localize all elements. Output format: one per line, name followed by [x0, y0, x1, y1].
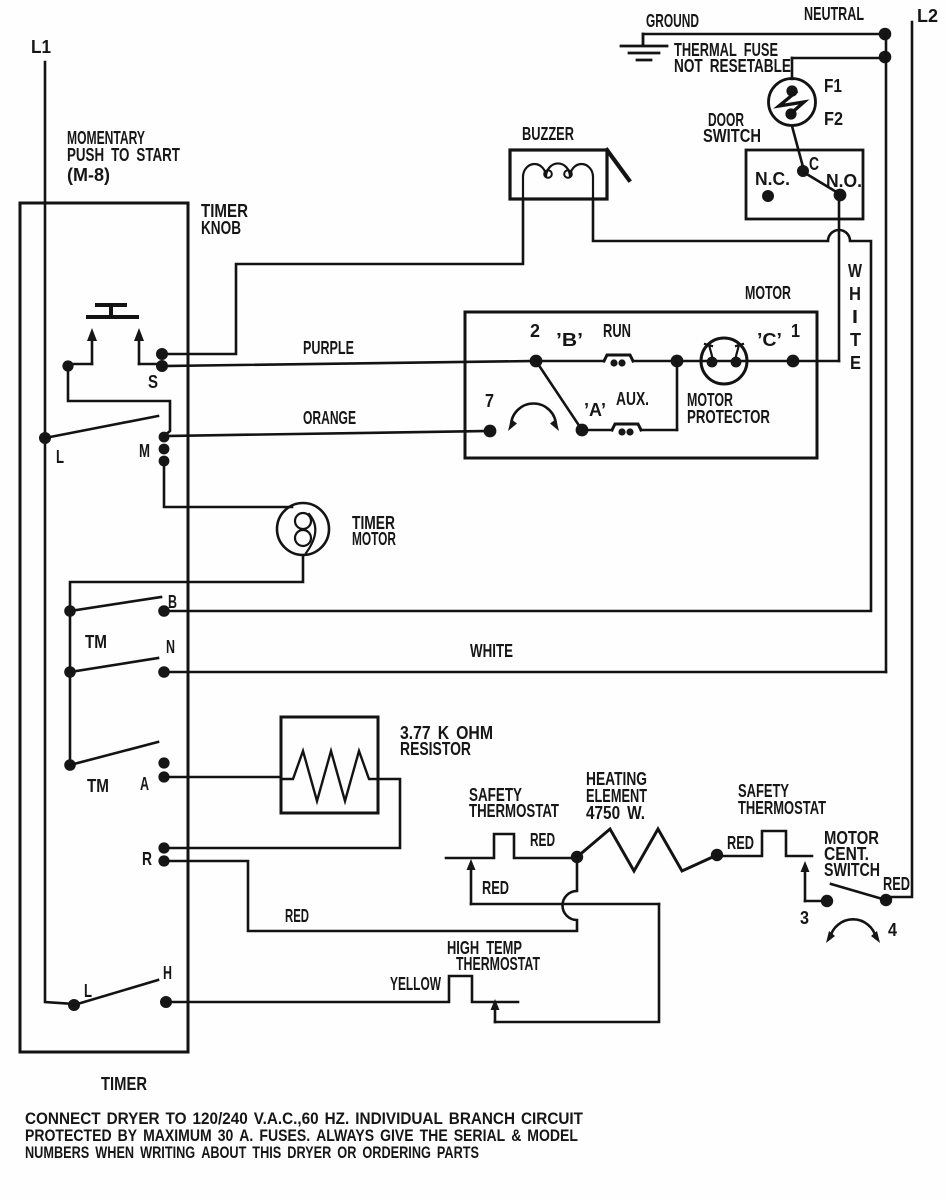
motor protector right contact — [731, 357, 742, 368]
svg-text:THERMOSTAT: THERMOSTAT — [738, 798, 826, 818]
buzzer striker arm — [607, 150, 629, 180]
node terminal 3 dot — [821, 895, 833, 907]
door switch box — [746, 150, 863, 219]
svg-text:PURPLE: PURPLE — [303, 338, 354, 358]
timer blade TM to A — [70, 742, 158, 765]
svg-text:L2: L2 — [917, 6, 938, 26]
node C terminal dot — [797, 165, 809, 177]
node push button left contact dot — [62, 360, 73, 371]
timer motor coil tail — [306, 514, 315, 553]
wire push button right connector — [139, 363, 161, 366]
node TM lower dot — [64, 759, 76, 771]
node R terminal upper dot — [158, 842, 169, 853]
wire run winding row — [536, 360, 793, 363]
motor rotation arc arrow — [511, 404, 556, 426]
wire PURPLE S to motor terminal 2 — [162, 361, 536, 366]
wire buzzer left to S contact — [163, 199, 523, 354]
svg-text:MOTOR: MOTOR — [745, 283, 791, 303]
svg-text:TIMER: TIMER — [101, 1074, 147, 1094]
wire RED R to heating element (with hop) — [164, 857, 577, 931]
svg-text:H: H — [849, 284, 861, 304]
safety thermostat left — [446, 834, 577, 858]
wire aux return to junction — [676, 361, 679, 430]
high temp thermostat arrow contact — [494, 1007, 497, 1022]
pin F1 terminal dot — [786, 85, 797, 96]
node NEUTRAL junction 2 — [879, 51, 892, 64]
svg-text:YELLOW: YELLOW — [390, 974, 441, 994]
cent switch blade 4 to 3 — [831, 884, 886, 900]
thermal fuse F1-F2 — [769, 79, 816, 126]
fuse element link — [779, 92, 804, 116]
svg-text:E: E — [850, 353, 861, 373]
node A terminal upper dot — [158, 757, 169, 768]
svg-text:4: 4 — [888, 920, 897, 940]
svg-text:NUMBERS: NUMBERS — [25, 1143, 89, 1162]
svg-text:S: S — [148, 372, 158, 392]
svg-text:DRYER: DRYER — [287, 1143, 331, 1162]
node N.C. terminal dot — [762, 190, 774, 202]
svg-text:THIS: THIS — [252, 1143, 281, 1162]
heating element 4750 W — [577, 829, 717, 871]
wire resistor to R contact — [166, 779, 400, 848]
wire push button left connector — [68, 363, 92, 366]
motor box — [465, 312, 817, 458]
wire fuse stem — [791, 58, 794, 79]
node N terminal dot — [158, 666, 170, 678]
node motor terminal 2 dot — [530, 355, 543, 368]
node A terminal lower dot — [158, 771, 169, 782]
timer motor coil lower loop — [295, 530, 311, 546]
svg-text:L1: L1 — [31, 37, 51, 57]
svg-text:L: L — [56, 447, 64, 467]
wire neutral horizontal — [643, 33, 885, 36]
svg-text:1: 1 — [791, 321, 800, 341]
node A winding dot — [576, 424, 589, 437]
svg-text:A: A — [140, 774, 149, 794]
timer blade L to H — [74, 980, 158, 1005]
wire M to timer motor — [164, 461, 292, 507]
door switch blade C to N.O. — [805, 173, 838, 193]
push button M-8 actuator — [88, 305, 137, 317]
svg-text:WHEN: WHEN — [95, 1143, 134, 1162]
svg-text:ORDERING: ORDERING — [362, 1143, 431, 1162]
svg-text:F2: F2 — [824, 109, 843, 129]
svg-text:2: 2 — [530, 321, 540, 341]
svg-text:4750: 4750 — [586, 803, 620, 823]
node M terminal dot 3 — [159, 456, 170, 467]
motor cent switch arrow contact — [804, 869, 807, 901]
svg-text:MODEL: MODEL — [527, 1126, 578, 1145]
pin F2 terminal dot — [785, 108, 796, 119]
push button moving contact arrows — [92, 337, 139, 364]
wire thermal fuse feed — [792, 57, 885, 60]
svg-text:WHITE: WHITE — [470, 641, 513, 661]
node NEUTRAL junction 1 — [879, 28, 892, 41]
wire ORANGE M to motor terminal 7 — [164, 431, 490, 436]
wire push button left to M contact — [68, 366, 170, 436]
svg-text:OR: OR — [337, 1143, 356, 1162]
svg-text:PUSH: PUSH — [67, 145, 104, 165]
safety thermostat left arrow contact — [470, 867, 473, 904]
node S terminal upper dot — [156, 348, 168, 360]
svg-text:’B’: ’B’ — [556, 330, 583, 350]
wire red riser to high temp branch — [471, 903, 659, 906]
node N.O. terminal dot — [834, 189, 847, 202]
svg-text:SWITCH: SWITCH — [824, 860, 880, 880]
svg-text:ABOUT: ABOUT — [201, 1143, 247, 1162]
svg-text:THERMOSTAT: THERMOSTAT — [456, 954, 540, 974]
node L lower junction dot — [68, 999, 80, 1011]
node R terminal lower dot — [158, 855, 169, 866]
svg-text:GROUND: GROUND — [646, 11, 699, 31]
wire neutral vertical — [885, 34, 888, 672]
svg-text:PARTS: PARTS — [437, 1143, 479, 1162]
node B terminal dot — [158, 605, 170, 617]
svg-text:WRITING: WRITING — [140, 1143, 195, 1162]
svg-text:&: & — [511, 1126, 521, 1145]
motor protector — [701, 338, 747, 384]
svg-text:T: T — [850, 330, 861, 350]
timer motor — [277, 503, 329, 555]
svg-text:TM: TM — [85, 632, 107, 652]
wire aux winding row — [582, 429, 677, 432]
timer blade TM to B — [70, 597, 161, 611]
svg-text:MOTOR: MOTOR — [352, 529, 396, 549]
wire timer motor return to TM contacts — [70, 555, 303, 765]
motor protector left contact — [707, 357, 718, 368]
timer box — [20, 203, 188, 1052]
svg-text:RUN: RUN — [603, 321, 631, 341]
svg-text:KNOB: KNOB — [201, 218, 241, 238]
svg-text:AUX.: AUX. — [616, 389, 649, 409]
node motor terminal 7 dot — [484, 425, 497, 438]
node L junction dot — [39, 432, 51, 444]
svg-text:N.O.: N.O. — [826, 171, 862, 191]
svg-text:3: 3 — [800, 908, 809, 928]
svg-text:N.C.: N.C. — [755, 169, 790, 189]
svg-text:TM: TM — [87, 776, 109, 796]
svg-text:’C’: ’C’ — [757, 330, 782, 350]
svg-text:SWITCH: SWITCH — [703, 126, 761, 146]
node winding junction dot — [671, 355, 684, 368]
wire white neutral to timer N — [164, 671, 886, 674]
svg-text:RED: RED — [285, 906, 309, 926]
timer blade TM to N — [70, 658, 158, 672]
svg-text:NEUTRAL: NEUTRAL — [804, 4, 864, 24]
svg-text:M: M — [139, 441, 150, 461]
buzzer box — [510, 150, 607, 199]
svg-text:RED: RED — [482, 878, 509, 898]
svg-text:(M-8): (M-8) — [67, 165, 110, 185]
svg-text:ORANGE: ORANGE — [303, 408, 356, 428]
svg-text:RESETABLE: RESETABLE — [710, 56, 791, 76]
resistor 3.77 K OHM zigzag — [281, 751, 378, 801]
node heating element right dot — [711, 849, 723, 861]
wire N.O. down to motor terminal 1 (white) — [838, 195, 841, 361]
svg-text:L: L — [84, 981, 92, 1001]
run winding RUN coil — [604, 355, 633, 361]
svg-text:TO: TO — [111, 145, 129, 165]
wire L2 lead — [887, 22, 912, 897]
wire YELLOW H to high temp thermostat — [166, 976, 518, 1002]
wire high temp thermostat riser — [495, 904, 659, 1022]
svg-text:7: 7 — [485, 391, 494, 411]
svg-text:N: N — [166, 637, 175, 657]
svg-text:RED: RED — [883, 874, 910, 894]
svg-text:THERMOSTAT: THERMOSTAT — [469, 801, 559, 821]
motor start blade 2 to A — [536, 361, 582, 430]
node M terminal dot 2 — [159, 444, 170, 455]
svg-text:H: H — [163, 963, 172, 983]
svg-text:B: B — [168, 592, 177, 612]
node heating element left dot — [571, 851, 583, 863]
wire motor terminal 1 to white — [793, 360, 839, 363]
safety thermostat right — [717, 831, 812, 856]
aux winding AUX coil — [612, 424, 641, 430]
buzzer coil — [523, 163, 593, 199]
svg-text:R: R — [142, 849, 152, 869]
cent switch rotation arc arrow — [830, 919, 876, 938]
svg-text:NOT: NOT — [674, 56, 703, 76]
wire fuse to door switch C — [792, 126, 803, 167]
svg-text:START: START — [136, 145, 180, 165]
buzzer coil loop 2 — [564, 170, 572, 178]
timer motor coil upper loop — [295, 513, 311, 529]
svg-text:RED: RED — [530, 830, 555, 850]
svg-text:F1: F1 — [824, 76, 842, 96]
node S terminal lower dot — [156, 360, 168, 372]
ground — [621, 34, 667, 60]
resistor box — [281, 717, 378, 813]
node M terminal dot 1 — [159, 432, 170, 443]
svg-text:C: C — [809, 154, 819, 174]
svg-text:BUZZER: BUZZER — [522, 124, 574, 144]
svg-text:I: I — [852, 307, 858, 327]
node motor terminal 1 dot — [787, 355, 800, 368]
timer blade L to M — [45, 416, 158, 438]
svg-text:W: W — [848, 261, 862, 281]
svg-text:RED: RED — [727, 833, 754, 853]
svg-text:PROTECTOR: PROTECTOR — [687, 407, 770, 427]
node H terminal dot — [160, 996, 172, 1008]
svg-text:W.: W. — [627, 803, 645, 823]
wire buzzer right to timer B (with hop over white wire) — [164, 199, 871, 611]
node TM upper dot — [64, 605, 76, 617]
svg-text:’A’: ’A’ — [584, 400, 606, 420]
wire cent switch terminal 3 — [805, 900, 827, 903]
buzzer coil loop 1 — [544, 170, 552, 178]
wire L1 lead — [45, 62, 74, 1004]
wire A to resistor — [164, 776, 281, 779]
svg-text:RESISTOR: RESISTOR — [400, 739, 471, 759]
node TM mid dot — [64, 666, 76, 678]
node terminal 4 dot — [880, 894, 892, 906]
